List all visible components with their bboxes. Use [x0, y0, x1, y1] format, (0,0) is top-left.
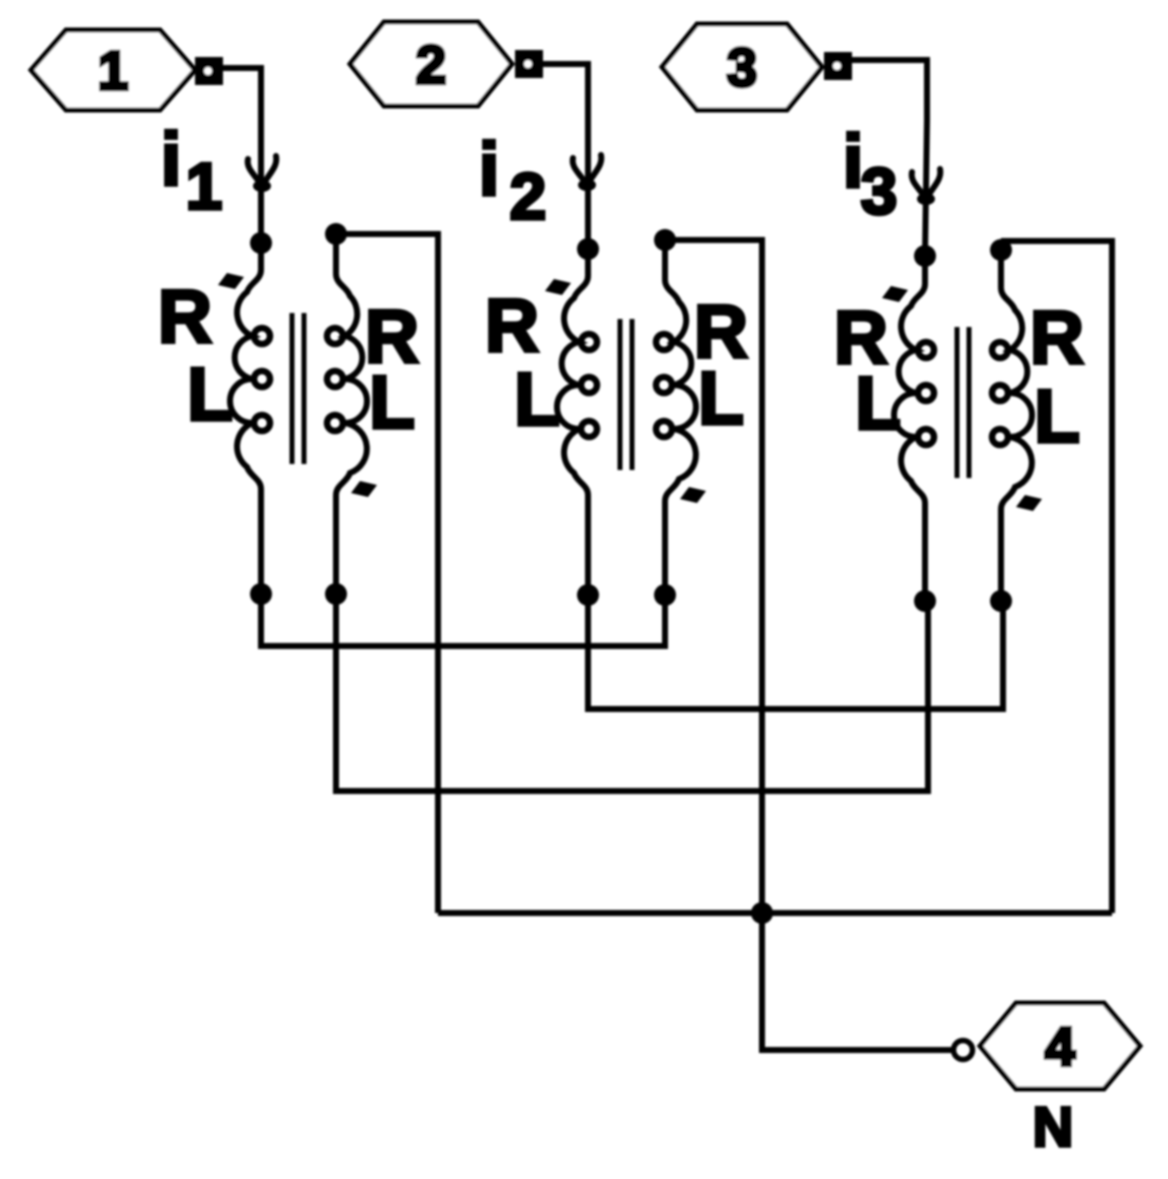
- node top secondary 2: [654, 229, 676, 251]
- svg-text:R: R: [158, 274, 212, 358]
- svg-text:R: R: [1030, 295, 1084, 379]
- current arrow i1: [248, 159, 260, 183]
- inductor L1b (secondary coil): [336, 234, 367, 594]
- node bottom primary 1: [250, 583, 272, 605]
- wire: secondary1 bottom to primary3 bottom (net W3): [336, 594, 928, 791]
- port 3 (hexagonal inport): [662, 24, 822, 110]
- wire port1 to node A1: [221, 68, 261, 243]
- svg-text:2: 2: [416, 35, 446, 95]
- inductor L1a (primary coil): [230, 243, 261, 594]
- port 1 connection pad: [195, 57, 223, 85]
- current arrow i2: [573, 158, 585, 182]
- inductor L3a (primary coil): [894, 256, 925, 601]
- current arrow i3: [912, 172, 924, 196]
- transformer core 1: [290, 313, 295, 464]
- svg-text:3: 3: [861, 154, 898, 228]
- svg-text:i: i: [161, 117, 182, 201]
- wire: primary1 bottom to secondary2 bottom (net W1): [261, 594, 665, 646]
- svg-text:L: L: [855, 361, 901, 445]
- transformer core 3: [955, 327, 960, 478]
- dot-convention marker secondary 3: [1016, 495, 1042, 511]
- svg-text:N: N: [1033, 1095, 1073, 1158]
- node bottom secondary 2: [654, 584, 676, 606]
- wire: primary2 bottom to secondary3 bottom (net W2): [588, 595, 1003, 709]
- port 2 (hexagonal inport): [350, 22, 512, 106]
- junction dot neutral: [751, 902, 773, 924]
- svg-text:R: R: [485, 283, 539, 367]
- svg-text:L: L: [698, 356, 744, 440]
- node bottom secondary 1: [325, 583, 347, 605]
- node bottom primary 2: [577, 584, 599, 606]
- svg-text:L: L: [369, 360, 415, 444]
- node top primary 2: [577, 238, 599, 260]
- wire port2 to node A2: [541, 64, 588, 249]
- transformer core 2: [618, 319, 623, 470]
- port 1 (hexagonal inport): [31, 30, 195, 110]
- svg-text:4: 4: [1045, 1017, 1075, 1077]
- dot-convention marker secondary 1: [351, 481, 377, 497]
- svg-text:L: L: [1034, 374, 1080, 458]
- wire secondary-top 3 to vertical: [1001, 241, 1112, 913]
- wire: junction to port 4: [762, 913, 952, 1050]
- wire secondary-top 1 to vertical: [336, 234, 438, 913]
- svg-text:3: 3: [727, 38, 757, 98]
- svg-text:L: L: [514, 357, 560, 441]
- inductor L2b (secondary coil): [665, 240, 696, 595]
- wire port3 to node A3: [850, 60, 927, 256]
- dot-convention marker primary 2: [545, 279, 571, 295]
- node top primary 1: [250, 232, 272, 254]
- node top secondary 3: [990, 239, 1012, 261]
- port 2 connection pad: [515, 50, 543, 78]
- svg-text:2: 2: [510, 159, 547, 233]
- wire secondary-top 2 to vertical: [665, 240, 762, 1050]
- inductor L3b (secondary coil): [1001, 250, 1032, 601]
- inductor L2a (primary coil): [557, 249, 588, 595]
- node top primary 3: [914, 245, 936, 267]
- svg-text:1: 1: [98, 41, 128, 101]
- node bottom secondary 3: [990, 590, 1012, 612]
- port 3 connection pad: [824, 52, 852, 80]
- dot-convention marker secondary 2: [680, 487, 706, 503]
- svg-text:L: L: [187, 352, 233, 436]
- node top secondary 1: [325, 223, 347, 245]
- svg-text:i: i: [479, 127, 500, 211]
- svg-text:1: 1: [186, 149, 223, 223]
- dot-convention marker primary 1: [218, 273, 244, 289]
- wire: neutral bus (net N): [438, 910, 1112, 916]
- port 4 (hexagonal outport): [980, 1003, 1140, 1089]
- node bottom primary 3: [914, 590, 936, 612]
- port 4 input marker: [954, 1041, 973, 1060]
- dot-convention marker primary 3: [882, 286, 908, 302]
